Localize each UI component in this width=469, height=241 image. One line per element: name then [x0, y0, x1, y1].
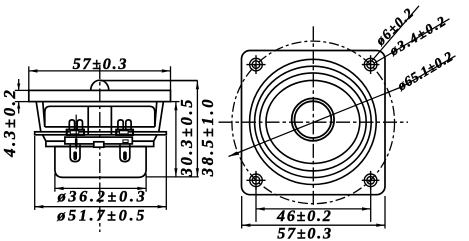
basket inner wall left — [43, 102, 45, 127]
dim 46 extension right — [370, 187, 372, 222]
washer plate — [46, 141, 154, 146]
terminal tab right: prong 2 — [126, 120, 131, 130]
leader Ø3.4 — [375, 19, 450, 63]
dim 57±0.3 extension line right — [170, 66, 172, 90]
step trapezoid — [43, 135, 157, 141]
dim 4.3±0.2 extension line top — [15, 89, 29, 91]
dim 4.3±0.2 dimension line upper with arrow — [18, 79, 20, 90]
terminal tab left: prong 1 — [69, 120, 74, 130]
dim 46 extension left — [255, 187, 257, 222]
dim 38.5 dimension line — [196, 81, 198, 177]
dust cap arc on top — [91, 80, 109, 90]
basket inner wall right — [155, 102, 157, 127]
solder lug left slot — [73, 151, 77, 160]
leader Ø65.1 segment 2 — [403, 56, 456, 87]
rim ring (Ø51.7 flange) — [35, 132, 167, 135]
dim 57±0.3 extension line left — [28, 66, 30, 90]
cone top line / 38.5 top extension — [100, 80, 198, 82]
dust cap outer — [292, 98, 334, 140]
svg-text:57±0.3: 57±0.3 — [277, 225, 333, 241]
dim 57±0.3 arrow right — [162, 69, 171, 72]
dim Ø51.7 extension left — [34, 136, 36, 210]
dim Ø36.2 dimension line — [55, 187, 146, 189]
dim 4.3±0.2 extension line bottom — [15, 101, 29, 103]
terminal board — [65, 137, 132, 144]
centerline (left view) — [99, 65, 101, 232]
terminal tab left: body — [67, 130, 84, 135]
svg-text:4.3±0.2: 4.3±0.2 — [0, 88, 19, 158]
leader Ø6 — [371, 6, 419, 62]
svg-text:46±0.2: 46±0.2 — [276, 207, 333, 225]
flange (front mounting plate, side view) — [29, 90, 171, 101]
bolt circle Ø65.1 (dash-dot) — [232, 41, 395, 204]
leader Ø65.1 segment 1 with arrow — [229, 87, 403, 157]
basket outer wall right — [159, 102, 164, 132]
solder lug right — [120, 145, 130, 162]
terminal tab left: slot — [70, 131, 78, 134]
centerline vertical (right view) — [312, 26, 314, 207]
mounting hole BL — [246, 171, 265, 190]
dim 30.3 top extension — [171, 101, 180, 103]
dim Ø51.7 dimension line — [35, 206, 167, 208]
gasket ring outer — [250, 59, 377, 184]
cone edge ring — [266, 80, 360, 163]
board hole right — [123, 140, 128, 143]
dim 57±0.3 arrow left — [29, 69, 38, 72]
dim Ø36.2 extension left — [54, 174, 56, 192]
dim 57 extension left (right view) — [241, 196, 243, 229]
terminal tab left: prong 2 — [77, 120, 82, 130]
spider line — [45, 126, 155, 128]
center rect on washer — [94, 142, 104, 147]
dim 57 dimension line (right view) — [242, 224, 385, 226]
svg-text:ø51.7±0.5: ø51.7±0.5 — [56, 207, 147, 225]
bottom extension line (magnet base) — [147, 176, 199, 178]
terminal tab right: slot — [120, 131, 129, 134]
centerline horizontal (right view) — [219, 121, 409, 123]
dust cap inner — [295, 101, 332, 138]
frame square — [242, 51, 386, 195]
terminal tab right: body — [116, 130, 133, 135]
mounting hole BR — [362, 171, 380, 190]
svg-text:ø36.2±0.3: ø36.2±0.3 — [57, 188, 148, 206]
dim 30.3 dimension line — [175, 102, 177, 177]
svg-text:57±0.3: 57±0.3 — [73, 55, 129, 73]
svg-text:30.3±0.5: 30.3±0.5 — [177, 97, 196, 177]
mounting hole TL — [246, 55, 265, 74]
dim 57±0.3 dimension line — [29, 70, 171, 72]
pole piece line right — [110, 106, 112, 135]
basket outer wall left — [36, 102, 41, 132]
dim 4.3±0.2 dimension line lower with arrow — [18, 102, 20, 114]
dim Ø51.7 extension right — [165, 136, 167, 210]
basket cavity outline — [45, 106, 155, 127]
terminal pin left — [75, 115, 77, 150]
mounting hole TR — [362, 55, 380, 74]
gasket ring inner — [255, 66, 372, 177]
pole piece line left — [87, 106, 89, 135]
solder lug right slot — [123, 151, 127, 160]
terminal tab right: prong 1 — [118, 120, 123, 130]
solder lug left — [70, 145, 80, 162]
dim 57 extension right (right view) — [384, 196, 386, 229]
dim Ø36.2 extension right — [145, 174, 147, 192]
svg-text:38.5±1.0: 38.5±1.0 — [198, 97, 217, 177]
dim 46 dimension line — [256, 208, 371, 210]
magnet — [55, 147, 146, 178]
surround ring — [260, 73, 367, 171]
